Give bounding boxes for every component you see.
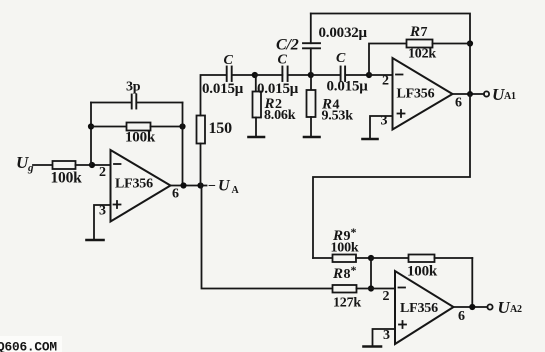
wire C1 node to C2 — [255, 74, 283, 76]
wire U3 output — [454, 306, 488, 308]
wire R9-R8 junction vertical — [370, 258, 372, 289]
op-amp U3 LF356 — [383, 271, 466, 344]
node junction C1 / R2 — [252, 72, 258, 78]
node junction C2 / R4 / C half — [308, 72, 314, 78]
node -UA label — [208, 178, 240, 197]
svg-text:A2: A2 — [510, 304, 522, 315]
wire feedback left vertical — [90, 103, 92, 166]
wire Ug to input resistor — [33, 164, 53, 166]
svg-text:R: R — [409, 24, 420, 40]
svg-text:C: C — [336, 51, 346, 66]
resistor R8* 127k — [332, 263, 371, 311]
svg-text:R: R — [332, 266, 343, 282]
node UA2 label — [498, 298, 523, 317]
resistor 100k (U3 feedback) — [407, 255, 472, 280]
capacitor C 3p (feedback) — [91, 80, 183, 109]
node R9 / R8 junction top — [368, 255, 374, 261]
svg-text:100k: 100k — [407, 264, 438, 280]
svg-text:−: − — [208, 179, 216, 194]
svg-text:g: g — [27, 162, 34, 174]
svg-text:102k: 102k — [408, 47, 436, 62]
op-amp U1 LF356 — [99, 150, 179, 222]
svg-text:6: 6 — [458, 309, 465, 324]
svg-text:100k: 100k — [51, 170, 83, 187]
ground (U2) — [363, 138, 378, 141]
node Ug input label — [16, 153, 34, 174]
resistor 150 — [197, 116, 233, 186]
node U3 output junction — [469, 304, 475, 310]
terminal UA1 — [484, 91, 489, 96]
svg-text:2: 2 — [99, 165, 106, 180]
terminal UA2 — [487, 304, 492, 309]
ground (U1) — [87, 239, 104, 242]
node U1 output feedback junction — [180, 182, 186, 188]
svg-text:8.06k: 8.06k — [264, 108, 296, 123]
svg-text:8: 8 — [344, 267, 351, 282]
op-amp U2 LF356 — [381, 58, 463, 130]
svg-text:C: C — [278, 53, 288, 68]
svg-text:0.015μ: 0.015μ — [257, 81, 299, 97]
svg-text:2: 2 — [382, 74, 389, 89]
wire R7 branch up — [369, 44, 407, 76]
svg-text:3: 3 — [383, 328, 390, 343]
resistor R9* 100k — [313, 225, 371, 262]
wire U1 pin3 to ground — [94, 205, 111, 239]
node junction C3 / R7 branch — [366, 72, 372, 78]
svg-text:3p: 3p — [126, 80, 141, 95]
svg-text:*: * — [351, 263, 357, 277]
svg-text:LF356: LF356 — [400, 301, 438, 316]
resistor R2 8.06k — [253, 75, 296, 137]
svg-text:6: 6 — [172, 187, 179, 202]
wire U3 pin3 to ground — [373, 329, 396, 346]
wire -UA to R8 — [202, 186, 333, 289]
resistor 100k (U1 feedback) — [91, 123, 183, 146]
wire U2 output down to R9 branch — [313, 94, 470, 258]
svg-text:A1: A1 — [504, 91, 516, 102]
svg-text:LF356: LF356 — [397, 87, 435, 102]
svg-text:Q606.COM: Q606.COM — [0, 340, 57, 352]
node feedback left junction — [88, 123, 94, 129]
node junction pin2 / feedback — [89, 162, 95, 168]
node -UA junction — [197, 182, 203, 188]
wire U2 pin3 to ground — [370, 116, 393, 138]
svg-text:U: U — [498, 298, 511, 317]
wire R9 node to U3 feedback resistor — [371, 257, 409, 259]
capacitor C3 0.015u — [311, 51, 369, 95]
svg-text:127k: 127k — [333, 296, 361, 311]
node feedback right junction — [179, 123, 185, 129]
svg-text:150: 150 — [209, 120, 233, 137]
resistor R4 9.53k — [307, 75, 354, 137]
node R8 junction — [368, 285, 374, 291]
resistor R1 100k (input) — [51, 161, 83, 187]
svg-text:100k: 100k — [331, 241, 359, 256]
capacitor C1 0.015u — [202, 53, 255, 97]
svg-text:*: * — [351, 225, 357, 239]
node UA1 label — [492, 85, 516, 104]
wire R8 node to U3 pin 2 — [371, 288, 395, 290]
capacitor C2 0.015u — [257, 53, 311, 98]
svg-text:100k: 100k — [125, 130, 156, 146]
svg-text:0.015μ: 0.015μ — [202, 81, 244, 97]
svg-text:C: C — [224, 53, 234, 68]
node R7 right junction — [467, 40, 473, 46]
ground (U3) — [364, 345, 382, 348]
svg-text:U: U — [218, 178, 231, 195]
svg-text:0.0032μ: 0.0032μ — [319, 25, 368, 41]
wire U2 output — [453, 93, 485, 95]
wire feedback down to U3 output — [471, 258, 473, 307]
ground (R4) — [304, 136, 320, 139]
wire feedback right vertical — [182, 103, 184, 186]
watermark Q606.COM — [0, 336, 62, 352]
wire input resistor to U1 pin 2 — [76, 164, 111, 166]
svg-text:A: A — [232, 185, 240, 196]
svg-text:9.53k: 9.53k — [322, 109, 354, 124]
node U2 output junction — [467, 91, 473, 97]
svg-text:C/2: C/2 — [276, 37, 299, 54]
wire C3 to U2 pin 2 — [369, 74, 393, 76]
ground (R2) — [249, 136, 265, 139]
svg-text:0.015μ: 0.015μ — [327, 79, 369, 95]
svg-text:LF356: LF356 — [115, 177, 153, 192]
resistor R7 102k — [407, 24, 471, 62]
svg-text:2: 2 — [383, 289, 390, 304]
svg-text:6: 6 — [455, 96, 462, 111]
wire top feedback to U2 output — [311, 14, 470, 95]
wire U1 output — [171, 185, 207, 187]
wire 150 top to C line bend — [201, 75, 226, 116]
capacitor C/2 0.0032u — [276, 14, 368, 76]
svg-text:7: 7 — [421, 25, 428, 40]
